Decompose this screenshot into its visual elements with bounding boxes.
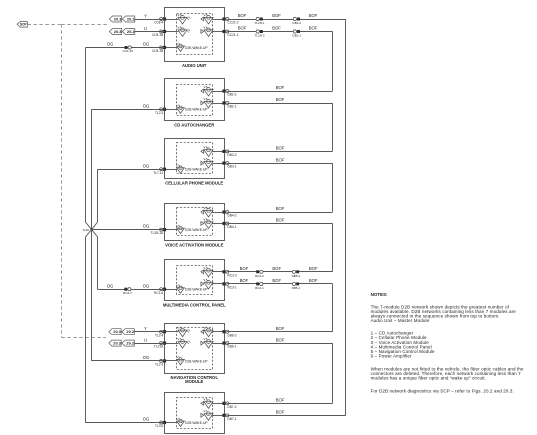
svg-text:DB4-1: DB4-1 <box>228 225 237 229</box>
svg-text:OG: OG <box>107 283 114 288</box>
wire BOF vertical navigation tx to power amp rx <box>332 343 334 403</box>
svg-text:TL3-5: TL3-5 <box>155 424 164 428</box>
svg-text:OG: OG <box>143 163 150 168</box>
svg-text:BOF: BOF <box>309 26 318 31</box>
svg-text:20.3: 20.3 <box>113 329 121 334</box>
module U6 inner dashed enclosure <box>177 328 213 370</box>
svg-text:6 – Power Amplifier: 6 – Power Amplifier <box>371 354 412 359</box>
module U2 CD AUTOCHANGER outer box <box>165 79 225 121</box>
pin fiber out 2 U5 RC3-1 <box>222 282 237 289</box>
svg-text:BOF: BOF <box>276 410 285 415</box>
svg-text:RC3-2: RC3-2 <box>228 273 237 277</box>
pin wake-up U3 TL7-12 <box>153 168 166 175</box>
svg-text:BOF: BOF <box>276 337 285 342</box>
svg-text:20.2: 20.2 <box>126 329 134 334</box>
svg-text:BOF: BOF <box>276 85 285 90</box>
wire BOF power amp receive row <box>227 398 332 404</box>
wire OG multimedia vertical <box>92 230 98 290</box>
wire BOF navigation transmit row <box>227 337 332 343</box>
optical transmitter in U6 <box>201 338 213 348</box>
wire transmitter to pin U1 <box>212 31 224 33</box>
svg-text:BOF: BOF <box>238 26 247 31</box>
svg-text:DB7-2: DB7-2 <box>228 405 237 409</box>
svg-text:VOICE ACTIVATION MODULE: VOICE ACTIVATION MODULE <box>165 242 224 247</box>
svg-text:TL2B-1A: TL2B-1A <box>151 231 164 235</box>
wire Y pin to device U6 <box>165 331 179 333</box>
pin wake-up U5 RC1-6 <box>154 288 166 295</box>
wire wake-up to pin U6 <box>165 360 178 362</box>
svg-text:20.2: 20.2 <box>127 16 135 21</box>
svg-text:SCP: SCP <box>20 23 28 27</box>
pin U U6 <box>154 342 166 349</box>
pin U U1 <box>152 30 166 37</box>
optical receiver in U7 <box>201 398 213 408</box>
wire BOF cellular receive row <box>227 146 332 152</box>
svg-text:D2B WAKE-UP: D2B WAKE-UP <box>185 46 208 50</box>
svg-text:BOF: BOF <box>272 266 281 271</box>
svg-text:RC1-6: RC1-6 <box>154 291 163 295</box>
svg-text:DB2-1: DB2-1 <box>228 105 237 109</box>
svg-text:BOF: BOF <box>276 326 285 331</box>
optical transmitter in U2 <box>201 98 213 108</box>
wire transmitter to pin U7 <box>212 415 224 417</box>
connector RC4-2 inline <box>255 270 264 278</box>
pin wake-up U4 TL2B-1A <box>151 228 166 235</box>
wire wake-up to pin U1 <box>165 47 178 49</box>
svg-text:BOF: BOF <box>276 218 285 223</box>
wire BOF vertical voice tx to multimedia rx <box>332 224 334 272</box>
module U7 POWER AMPLIFIER outer box <box>165 393 225 434</box>
svg-text:CC8-1B: CC8-1B <box>152 49 163 53</box>
wire receiver to pin U1 <box>212 19 224 21</box>
svg-text:RC2-7: RC2-7 <box>123 291 132 295</box>
module U2 name label <box>174 123 214 128</box>
svg-text:Audio Unit – Master Module: Audio Unit – Master Module <box>371 318 430 323</box>
module U1 AUDIO UNIT outer box <box>165 8 225 62</box>
pin Y U1 <box>154 17 166 24</box>
D2B wake-up device in U3 <box>176 165 208 174</box>
wire OG audio vertical <box>85 48 91 230</box>
wire receiver to pin U7 <box>212 403 224 405</box>
svg-text:DB2-2: DB2-2 <box>228 93 237 97</box>
SCP connector reference <box>17 22 27 28</box>
wire U pin to device U6 <box>165 343 179 345</box>
optical receiver in U5 <box>201 267 213 277</box>
optical receiver in U6 <box>201 327 213 337</box>
svg-text:BOF: BOF <box>276 97 285 102</box>
svg-text:CC21-1: CC21-1 <box>228 33 239 37</box>
wire OG audio wake-up <box>85 42 164 48</box>
optical transmitter in U4 <box>201 218 213 228</box>
svg-text:BOF: BOF <box>240 278 249 283</box>
svg-text:U: U <box>144 337 147 342</box>
optical receiver in U3 <box>201 146 213 156</box>
svg-text:Y: Y <box>144 326 147 331</box>
wire transmitter to pin U4 <box>212 223 224 225</box>
svg-text:D2B WAKE-UP: D2B WAKE-UP <box>185 168 208 172</box>
svg-text:DB3-1: DB3-1 <box>228 165 237 169</box>
svg-text:Y: Y <box>144 13 147 18</box>
wire BOF cellular transmit row <box>227 157 332 163</box>
D2B wake-up device in U2 <box>176 105 208 114</box>
pin fiber out 2 U6 DB6-1 <box>222 342 236 349</box>
wire BOF vertical cd tx to cellular rx <box>332 103 334 151</box>
svg-text:TL2N-2: TL2N-2 <box>255 34 265 38</box>
wire OG cd vertical <box>91 109 93 229</box>
wire BOF cd receive row <box>227 85 332 91</box>
pin fiber out 2 U7 DB7-1 <box>222 414 236 421</box>
svg-text:CC21-2: CC21-2 <box>228 21 239 25</box>
svg-text:CC8-4: CC8-4 <box>154 21 163 25</box>
optical transmitter in U7 <box>201 410 213 420</box>
svg-text:OG: OG <box>143 355 150 360</box>
wire BOF multimedia receive row <box>227 266 332 272</box>
optical receiver in U2 <box>201 86 213 96</box>
wire Y input navigation with refs <box>109 326 165 335</box>
module U2 inner dashed enclosure <box>177 85 213 116</box>
optical receiver U input U1 <box>178 26 191 36</box>
svg-text:TL2N-1: TL2N-1 <box>255 21 265 25</box>
wire OG navigation vertical <box>91 230 93 361</box>
D2B wake-up device in U7 <box>176 418 208 427</box>
svg-text:TL2-3: TL2-3 <box>155 111 164 115</box>
module U4 VOICE ACTIVATION MODULE outer box <box>165 204 225 241</box>
optical transmitter in U1 <box>201 26 213 36</box>
module U1 inner dashed enclosure <box>177 14 213 55</box>
svg-text:CELLULAR PHONE MODULE: CELLULAR PHONE MODULE <box>165 180 223 185</box>
pin fiber out 1 U2 DB2-2 <box>222 89 236 96</box>
wire receiver to pin U2 <box>212 91 224 93</box>
wire wake-up to pin U7 <box>165 422 178 424</box>
wire OG power amplifier vertical <box>85 230 91 423</box>
module U3 name label <box>165 180 223 185</box>
wire Y pin to device U1 <box>165 19 179 21</box>
optical receiver Y input U1 <box>178 14 191 24</box>
svg-text:OG: OG <box>107 42 114 47</box>
svg-text:BOF: BOF <box>238 13 247 18</box>
svg-text:OG: OG <box>143 42 150 47</box>
pin fiber out 2 U3 DB3-1 <box>222 162 236 169</box>
notes title <box>371 292 389 297</box>
splice TL66 <box>82 228 92 232</box>
svg-text:DB6-2: DB6-2 <box>228 333 237 337</box>
wire BOF vertical audio tx to cd rx <box>332 32 334 92</box>
wire OG navigation <box>92 355 165 361</box>
svg-text:TL21A: TL21A <box>154 345 164 349</box>
svg-text:CC8-1B: CC8-1B <box>152 33 163 37</box>
connector RC4-1 inline <box>255 282 264 290</box>
svg-text:20.3: 20.3 <box>113 341 121 346</box>
module U3 CELLULAR PHONE MODULE outer box <box>165 139 225 179</box>
svg-text:BOF: BOF <box>240 266 249 271</box>
svg-text:DB5-2: DB5-2 <box>292 274 301 278</box>
svg-text:20.3: 20.3 <box>114 16 122 21</box>
wire wake-up to pin U5 <box>165 289 178 291</box>
wire receiver to pin U5 <box>212 271 224 273</box>
wire receiver to pin U6 <box>212 331 224 333</box>
svg-text:DB4-2: DB4-2 <box>228 214 237 218</box>
wire dashed branch to navigation refs <box>61 337 106 339</box>
svg-text:modules has a unique fiber opt: modules has a unique fiber optic and “wa… <box>371 376 486 381</box>
svg-text:DB3-2: DB3-2 <box>228 153 237 157</box>
pin wake-up U7 TL3-5 <box>155 421 166 428</box>
connector TL2N-2 inline <box>255 30 265 38</box>
connector DB1-1 inline <box>293 30 302 38</box>
svg-text:BOF: BOF <box>276 157 285 162</box>
wire U pin to device U1 <box>165 31 179 33</box>
pin fiber out 1 U1 CC21-2 <box>222 17 238 24</box>
module U3 inner dashed enclosure <box>177 143 213 174</box>
svg-text:OG: OG <box>143 103 150 108</box>
svg-text:CD AUTOCHANGER: CD AUTOCHANGER <box>174 123 214 128</box>
svg-text:BOF: BOF <box>276 146 285 151</box>
module U7 inner dashed enclosure <box>177 398 213 429</box>
wire OG power amplifier <box>85 417 164 423</box>
pin wake-up U6 TL2-3 <box>155 359 166 366</box>
module U1 name label <box>182 63 207 68</box>
wire transmitter to pin U2 <box>212 103 224 105</box>
notes paragraph deleted modules <box>371 366 524 380</box>
svg-text:DB5-1: DB5-1 <box>292 286 301 290</box>
optical receiver U input U6 <box>178 338 191 348</box>
notes module list <box>371 331 435 359</box>
pin wake-up U2 TL2-3 <box>155 108 166 115</box>
wire Y input audio with refs <box>109 13 164 22</box>
module U5 inner dashed enclosure <box>177 266 213 295</box>
optical receiver Y input U6 <box>178 327 191 337</box>
pin fiber out 2 U2 DB2-1 <box>222 101 236 108</box>
connector DB1-2 inline <box>293 17 302 25</box>
connector RC2-7 inline <box>123 288 132 295</box>
module U6 NAVIGATION CONTROL outer box <box>165 324 225 374</box>
svg-text:For D2B network diagnostics vi: For D2B network diagnostics via SCP – re… <box>371 389 514 394</box>
svg-text:U: U <box>144 26 147 31</box>
notes paragraph network description <box>371 304 517 323</box>
wire receiver to pin U3 <box>212 151 224 153</box>
svg-text:BOF: BOF <box>272 278 281 283</box>
pin fiber out 1 U4 DB4-2 <box>222 210 236 217</box>
wire transmitter to pin U3 <box>212 163 224 165</box>
svg-text:MULTIMEDIA CONTROL PANEL: MULTIMEDIA CONTROL PANEL <box>163 303 226 308</box>
svg-text:D2B WAKE-UP: D2B WAKE-UP <box>185 421 208 425</box>
svg-text:D2B WAKE-UP: D2B WAKE-UP <box>185 359 208 363</box>
wire BOF return power amp tx to audio rx <box>345 19 347 415</box>
optical receiver in U1 <box>201 14 213 24</box>
svg-text:D2B WAKE-UP: D2B WAKE-UP <box>185 108 208 112</box>
pin fiber out 2 U4 DB4-1 <box>222 222 236 229</box>
svg-text:BOF: BOF <box>309 13 318 18</box>
svg-text:CC1-15: CC1-15 <box>123 49 134 53</box>
svg-text:AUDIO UNIT: AUDIO UNIT <box>182 63 207 68</box>
svg-text:BOF: BOF <box>272 26 281 31</box>
module U6 name label <box>170 375 218 384</box>
wire wake-up to pin U3 <box>165 169 178 171</box>
svg-text:BOF: BOF <box>272 13 281 18</box>
wire BOF navigation receive row <box>227 326 332 332</box>
module U5 MULTIMEDIA CONTROL PANEL outer box <box>165 260 225 301</box>
svg-text:RC4-2: RC4-2 <box>255 274 264 278</box>
svg-text:TL7-12: TL7-12 <box>153 171 163 175</box>
wire BOF audio transmit row <box>227 26 332 32</box>
svg-text:OG: OG <box>143 224 150 229</box>
pin fiber out 1 U3 DB3-2 <box>222 150 236 157</box>
connector CC1-15 inline <box>123 46 134 53</box>
wire BOF voice receive row <box>227 206 332 212</box>
svg-text:NOTES:: NOTES: <box>371 292 389 297</box>
D2B wake-up device in U1 <box>176 43 208 52</box>
wire U input audio with refs <box>109 26 164 35</box>
svg-text:D2B WAKE-UP: D2B WAKE-UP <box>185 228 208 232</box>
svg-text:20.2: 20.2 <box>126 341 134 346</box>
svg-text:OG: OG <box>143 283 150 288</box>
pin fiber out 1 U6 DB6-2 <box>222 330 236 337</box>
wire transmitter to pin U5 <box>212 283 224 285</box>
svg-text:OG: OG <box>143 417 150 422</box>
pin Y U6 <box>155 330 166 337</box>
svg-text:20.3: 20.3 <box>114 29 122 34</box>
svg-text:BOF: BOF <box>309 266 318 271</box>
wire wake-up to pin U2 <box>165 109 178 111</box>
module U5 name label <box>163 303 226 308</box>
svg-text:TL2-4: TL2-4 <box>155 333 164 337</box>
optical receiver in U4 <box>201 207 213 217</box>
wire dashed branch to audio unit refs <box>61 24 107 26</box>
svg-text:DB1-2: DB1-2 <box>293 21 302 25</box>
wire dashed vertical SCP bus <box>61 24 63 337</box>
pin wake-up U1 CC8-1B <box>152 46 166 53</box>
D2B wake-up device in U4 <box>176 225 208 234</box>
wire OG multimedia <box>98 283 165 289</box>
svg-text:20.2: 20.2 <box>127 29 135 34</box>
connector DB5-2 inline <box>292 270 301 278</box>
wire wake-up to pin U4 <box>165 229 178 231</box>
svg-text:DB1-1: DB1-1 <box>293 34 302 38</box>
wire transmitter to pin U6 <box>212 343 224 345</box>
wire BOF cd transmit row <box>227 97 332 103</box>
svg-text:TL2-3: TL2-3 <box>155 363 164 367</box>
notes paragraph diagnostics reference <box>371 389 514 394</box>
pin fiber out 2 U1 CC21-1 <box>222 30 238 37</box>
wire OG cellular <box>98 163 165 169</box>
optical transmitter in U3 <box>201 158 213 168</box>
pin fiber out 1 U5 RC3-2 <box>222 270 237 277</box>
module U4 name label <box>165 242 224 247</box>
D2B wake-up device in U6 <box>176 356 208 365</box>
D2B wake-up device in U5 <box>176 285 208 294</box>
connector TL2N-1 inline <box>255 17 265 25</box>
svg-text:DB6-1: DB6-1 <box>228 345 237 349</box>
wire BOF voice transmit row <box>227 218 332 224</box>
svg-text:DB7-1: DB7-1 <box>228 417 237 421</box>
svg-text:BOF: BOF <box>276 398 285 403</box>
wire U input navigation with refs <box>109 337 165 346</box>
wire OG cellular vertical <box>92 169 98 229</box>
wire BOF vertical multimedia tx to navigation rx <box>332 284 334 332</box>
connector DB5-1 inline <box>292 282 301 290</box>
wire OG cd autochanger <box>92 103 165 109</box>
optical transmitter in U5 <box>201 279 213 289</box>
wire OG voice activation from splice <box>92 224 165 230</box>
pin fiber out 1 U7 DB7-2 <box>222 402 236 409</box>
svg-text:BOF: BOF <box>276 206 285 211</box>
wire BOF audio receive row <box>227 13 346 19</box>
wire dashed SCP to branch <box>27 24 61 26</box>
wire receiver to pin U4 <box>212 212 224 214</box>
svg-text:RC4-1: RC4-1 <box>255 286 264 290</box>
svg-text:RC3-1: RC3-1 <box>228 286 237 290</box>
svg-text:BOF: BOF <box>309 278 318 283</box>
svg-text:D2B WAKE-UP: D2B WAKE-UP <box>185 288 208 292</box>
wire BOF power amp transmit row <box>227 410 346 416</box>
svg-text:MODULE: MODULE <box>185 379 203 384</box>
wire BOF multimedia transmit row <box>227 278 332 283</box>
module U4 inner dashed enclosure <box>177 208 213 236</box>
svg-text:TL66: TL66 <box>82 228 89 232</box>
wire BOF vertical cellular tx to voice rx <box>332 163 334 212</box>
